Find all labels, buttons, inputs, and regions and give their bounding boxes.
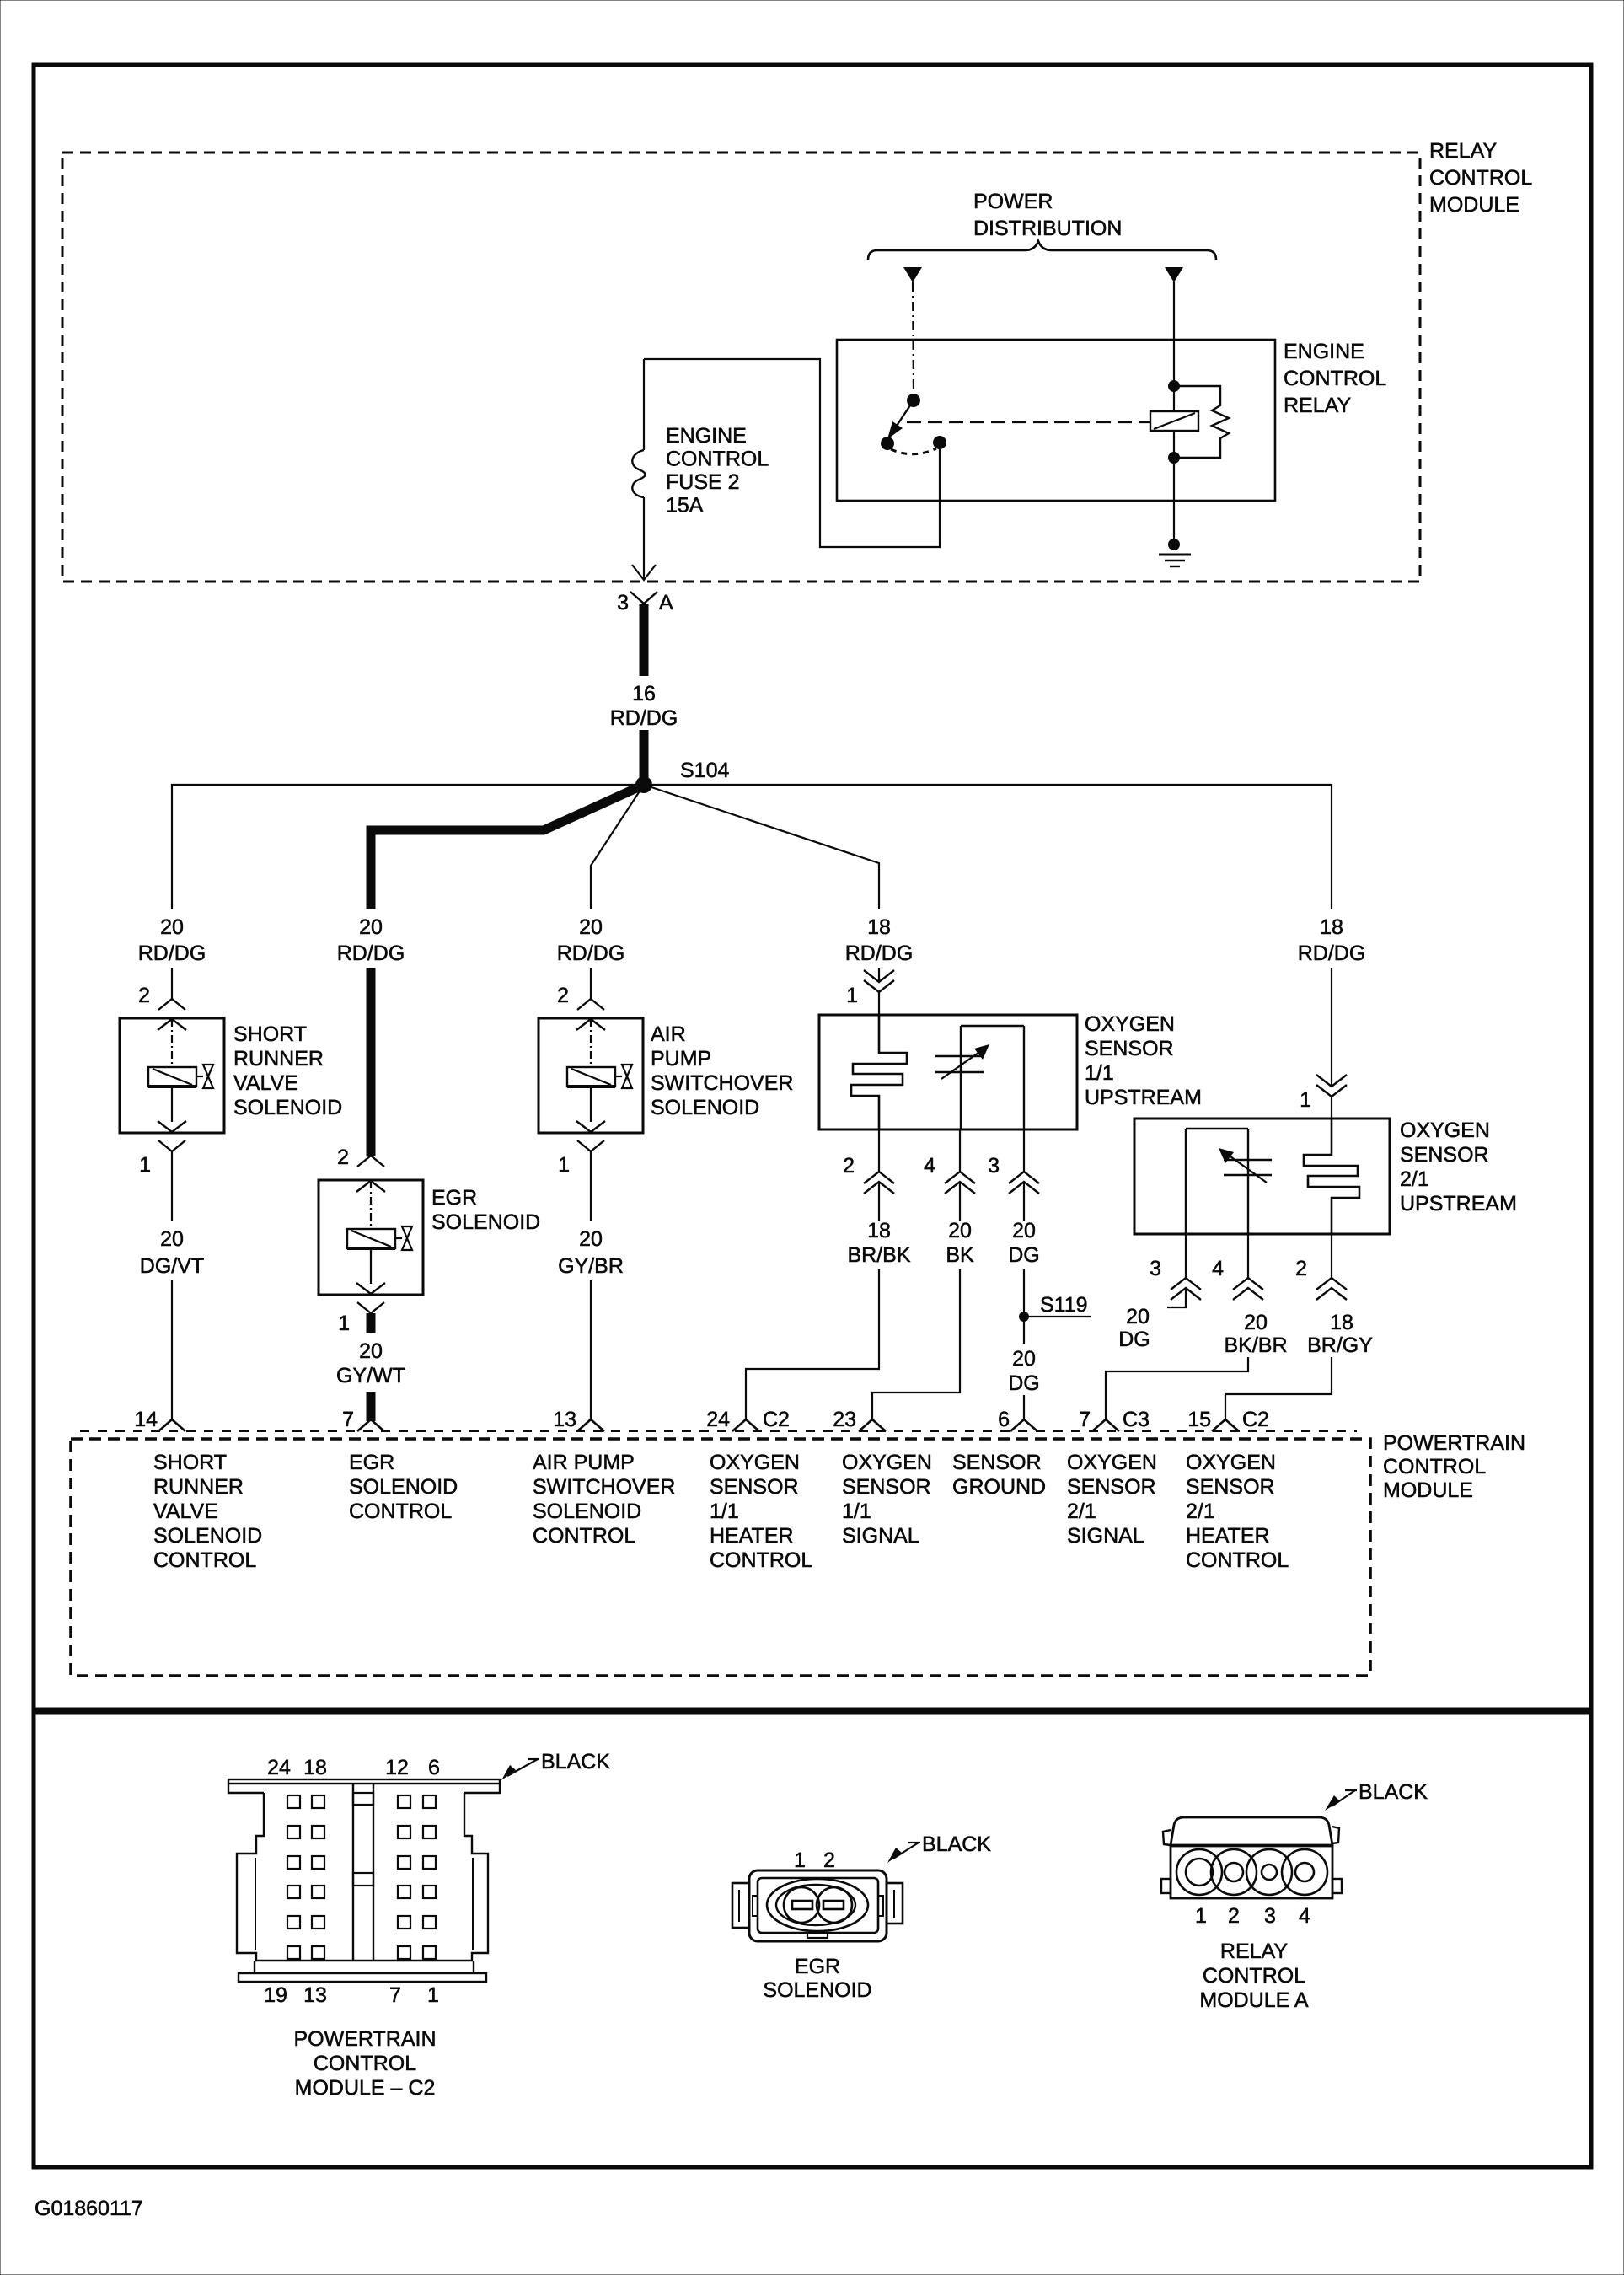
svg-text:SIGNAL: SIGNAL — [842, 1524, 919, 1548]
svg-text:20: 20 — [579, 915, 603, 939]
wire 16 RD/DG (thick) — [640, 604, 649, 785]
relay coil — [1150, 411, 1198, 431]
svg-text:BR/GY: BR/GY — [1307, 1333, 1373, 1357]
svg-text:4: 4 — [924, 1154, 935, 1178]
svg-text:RELAY: RELAY — [1429, 139, 1497, 163]
svg-text:RD/DG: RD/DG — [337, 942, 405, 965]
svg-text:3: 3 — [1150, 1257, 1161, 1280]
thick wire 20 RD/DG to EGR — [367, 968, 376, 1156]
label: POWERTRAIN CONTROL MODULE — [1383, 1431, 1525, 1502]
svg-text:POWERTRAIN: POWERTRAIN — [1383, 1431, 1525, 1455]
engine control fuse 2 wire — [643, 359, 645, 560]
svg-text:FUSE 2: FUSE 2 — [666, 470, 740, 494]
svg-text:18: 18 — [867, 1219, 891, 1242]
oxygen sensor 1/1 upstream box — [819, 1015, 1077, 1129]
svg-text:3: 3 — [1264, 1904, 1276, 1928]
short runner valve solenoid SOL1 — [120, 1018, 224, 1133]
EGR solenoid connector face — [732, 1870, 903, 1941]
label: POWER DISTRIBUTION — [973, 190, 1122, 240]
label: 18 RD/DG at x=1043 — [845, 915, 914, 965]
svg-text:BLACK: BLACK — [1359, 1780, 1428, 1804]
svg-text:24: 24 — [706, 1408, 730, 1431]
svg-text:1: 1 — [139, 1153, 151, 1177]
svg-text:CONTROL: CONTROL — [1186, 1548, 1289, 1572]
figure number G01860117 — [35, 2197, 143, 2220]
oxygen sensor 2/1 upstream box — [1134, 1119, 1390, 1234]
label: BLACK (PCM C2) with leader — [501, 1750, 610, 1780]
wire to short runner valve solenoid pin 2 — [171, 968, 173, 999]
svg-text:13: 13 — [553, 1408, 576, 1431]
RCM A cavity numbers — [1195, 1904, 1310, 1928]
relay switch common contact — [881, 437, 894, 450]
label: BLACK (EGR connector) with leader — [887, 1832, 991, 1863]
label: OXYGEN SENSOR 1/1 UPSTREAM — [1085, 1012, 1202, 1109]
O2S1/1 pin 4 wire + inline connector — [924, 1129, 975, 1221]
svg-text:SOLENOID: SOLENOID — [233, 1096, 342, 1119]
PCM terminal 13 — [553, 1408, 604, 1431]
inline connector pin 1 (O2S 1/1) — [846, 970, 894, 1007]
thick wire 20 GY/WT — [367, 1313, 376, 1421]
svg-text:20: 20 — [1244, 1311, 1268, 1334]
svg-text:RD/DG: RD/DG — [557, 942, 625, 965]
wire 20 DG/VT — [171, 1151, 173, 1419]
svg-text:GY/BR: GY/BR — [558, 1254, 624, 1278]
svg-text:MODULE: MODULE — [1429, 193, 1519, 217]
svg-text:CONTROL: CONTROL — [314, 2052, 416, 2075]
powertrain control module boundary (dashed) — [71, 1439, 1370, 1676]
PCM terminal 14 — [134, 1408, 185, 1431]
air pump switchover solenoid SOL3 — [539, 1018, 643, 1133]
relay control module boundary (dashed) — [62, 153, 1420, 582]
PCM terminal 6 — [998, 1408, 1037, 1431]
svg-text:18: 18 — [1330, 1311, 1353, 1334]
PCM function label at x=842 — [710, 1451, 812, 1572]
svg-text:S119: S119 — [1040, 1293, 1088, 1317]
svg-text:MODULE A: MODULE A — [1199, 1988, 1309, 2012]
svg-text:A: A — [659, 591, 673, 614]
svg-text:SOLENOID: SOLENOID — [431, 1210, 540, 1234]
power feed triangle B+ left — [903, 267, 922, 282]
svg-text:POWERTRAIN: POWERTRAIN — [294, 2027, 437, 2051]
connector pin 2 (air pump) — [557, 984, 604, 1010]
svg-text:HEATER: HEATER — [1186, 1524, 1270, 1548]
wire from NO contact to fuse feed — [644, 359, 940, 547]
PCM terminal 24 C2 — [706, 1408, 790, 1431]
svg-text:20: 20 — [1012, 1219, 1036, 1242]
svg-text:1: 1 — [1195, 1904, 1207, 1928]
svg-text:19: 19 — [264, 1983, 287, 2007]
label: 20 BK/BR — [1224, 1311, 1287, 1357]
svg-text:DG/VT: DG/VT — [140, 1254, 204, 1278]
arrowhead at module exit — [632, 560, 656, 580]
O2S1/1 pin 3 wire + inline connector — [988, 1129, 1039, 1221]
PCM function label at x=999 — [842, 1451, 932, 1548]
PCM C2 cavity numbers top — [267, 1756, 440, 1779]
svg-text:CONTROL: CONTROL — [1429, 166, 1532, 190]
svg-text:7: 7 — [342, 1408, 354, 1431]
svg-text:BK/BR: BK/BR — [1224, 1333, 1287, 1357]
svg-text:RELAY: RELAY — [1220, 1940, 1288, 1963]
PCM C2 connector face — [228, 1779, 500, 1982]
splice S119 — [1019, 1293, 1088, 1322]
svg-text:SOLENOID: SOLENOID — [533, 1500, 641, 1523]
svg-text:AIR: AIR — [651, 1022, 686, 1046]
relay control module A connector face — [1161, 1817, 1342, 1898]
svg-text:SWITCHOVER: SWITCHOVER — [533, 1475, 675, 1499]
svg-text:7: 7 — [389, 1983, 401, 2007]
svg-text:OXYGEN: OXYGEN — [842, 1451, 932, 1474]
svg-text:ENGINE: ENGINE — [666, 424, 747, 448]
svg-text:1: 1 — [338, 1312, 350, 1335]
PCM C2 cavity numbers bottom — [264, 1983, 439, 2007]
svg-text:PUMP: PUMP — [651, 1047, 711, 1070]
label: EGR SOLENOID — [431, 1186, 540, 1234]
dotted travel arc between contacts — [891, 448, 936, 454]
svg-text:4: 4 — [1299, 1904, 1310, 1928]
wire from left triangle to switch (dash-dot) — [913, 282, 914, 393]
engine control relay box — [837, 340, 1275, 501]
svg-text:SENSOR: SENSOR — [952, 1451, 1042, 1474]
svg-text:SENSOR: SENSOR — [1067, 1475, 1156, 1499]
label: EGR SOLENOID (connector) — [763, 1955, 871, 2002]
PCM function label at x=182 — [153, 1451, 262, 1572]
svg-text:2: 2 — [823, 1848, 835, 1872]
svg-text:15A: 15A — [666, 494, 704, 518]
svg-text:OXYGEN: OXYGEN — [1186, 1451, 1276, 1474]
label: 20 DG/VT — [140, 1227, 204, 1278]
svg-text:SENSOR: SENSOR — [1400, 1143, 1489, 1167]
svg-text:13: 13 — [303, 1983, 327, 2007]
svg-text:20: 20 — [359, 915, 383, 939]
svg-text:24: 24 — [267, 1756, 291, 1779]
svg-text:6: 6 — [428, 1756, 440, 1779]
relay control dashed line from switch to coil — [907, 421, 1150, 423]
svg-text:20: 20 — [948, 1219, 972, 1242]
svg-text:BR/BK: BR/BK — [847, 1243, 910, 1267]
svg-text:DISTRIBUTION: DISTRIBUTION — [973, 217, 1122, 240]
svg-text:SENSOR: SENSOR — [710, 1475, 799, 1499]
label: 20 RD/DG at x=204 — [138, 915, 206, 965]
S119 branch to O2S 2/1 pin 3 — [1024, 1316, 1091, 1317]
svg-text:SHORT: SHORT — [153, 1451, 227, 1474]
label: RELAY CONTROL MODULE A — [1199, 1940, 1309, 2012]
label: 20 DG (sensor return) — [1008, 1219, 1040, 1267]
svg-text:CONTROL: CONTROL — [153, 1548, 256, 1572]
power feed triangle B+ right — [1165, 267, 1183, 282]
svg-text:2: 2 — [843, 1154, 855, 1178]
svg-text:2: 2 — [1228, 1904, 1240, 1928]
label: 18 RD/DG at x=1580 — [1298, 915, 1366, 965]
PCM function label at x=414 — [349, 1451, 458, 1523]
svg-text:OXYGEN: OXYGEN — [1400, 1119, 1490, 1142]
svg-text:DG: DG — [1008, 1371, 1040, 1395]
svg-text:2: 2 — [1295, 1257, 1307, 1280]
label: 20 BK — [946, 1219, 974, 1267]
svg-text:20: 20 — [1126, 1305, 1150, 1328]
svg-text:2: 2 — [138, 984, 150, 1007]
svg-text:RUNNER: RUNNER — [233, 1047, 324, 1070]
label: 20 DG — [1008, 1347, 1040, 1395]
label: POWERTRAIN CONTROL MODULE - C2 — [294, 2027, 437, 2100]
label: RELAY CONTROL MODULE — [1429, 139, 1532, 217]
svg-text:C2: C2 — [763, 1408, 790, 1431]
svg-text:SIGNAL: SIGNAL — [1067, 1524, 1144, 1548]
svg-text:20: 20 — [579, 1227, 603, 1251]
label: SHORT RUNNER VALVE SOLENOID — [233, 1022, 342, 1119]
svg-text:3: 3 — [617, 591, 629, 614]
relay switch arm with arrowhead — [887, 400, 914, 439]
svg-text:EGR: EGR — [795, 1955, 840, 1978]
brace under POWER DISTRIBUTION — [868, 241, 1216, 260]
bus wire from S104 left to short runner column — [172, 785, 644, 909]
connector pin 1 (short runner) — [139, 1140, 185, 1177]
svg-text:SENSOR: SENSOR — [1186, 1475, 1275, 1499]
wire from right triangle to relay coil — [1173, 282, 1175, 384]
svg-text:MODULE: MODULE — [1383, 1478, 1473, 1502]
svg-text:1/1: 1/1 — [842, 1500, 871, 1523]
svg-text:1/1: 1/1 — [710, 1500, 739, 1523]
svg-text:2: 2 — [337, 1146, 349, 1169]
svg-text:OXYGEN: OXYGEN — [710, 1451, 800, 1474]
svg-text:20: 20 — [160, 1227, 184, 1251]
svg-text:GROUND: GROUND — [952, 1475, 1046, 1499]
svg-text:CONTROL: CONTROL — [666, 448, 769, 471]
svg-text:RD/DG: RD/DG — [1298, 942, 1366, 965]
O2S 2/1 sensing cell (variable) — [1186, 1129, 1272, 1234]
svg-text:SOLENOID: SOLENOID — [153, 1524, 262, 1548]
svg-text:DG: DG — [1008, 1243, 1040, 1267]
svg-text:7: 7 — [1079, 1408, 1091, 1431]
fuse element squiggle — [632, 450, 645, 497]
label: 18 BR/GY — [1307, 1311, 1373, 1357]
svg-text:18: 18 — [303, 1756, 327, 1779]
EGR connector cavity numbers — [794, 1848, 835, 1872]
svg-text:SENSOR: SENSOR — [842, 1475, 931, 1499]
svg-text:DG: DG — [1118, 1328, 1150, 1351]
O2S 1/1 sensing cell (variable) — [935, 1026, 1024, 1129]
svg-text:G01860117: G01860117 — [35, 2197, 143, 2220]
svg-text:CONTROL: CONTROL — [1284, 367, 1386, 390]
svg-text:SHORT: SHORT — [233, 1022, 307, 1046]
svg-text:1: 1 — [1300, 1088, 1311, 1112]
svg-text:SOLENOID: SOLENOID — [349, 1475, 458, 1499]
connector pin 2 (short runner) — [138, 984, 185, 1010]
svg-text:RD/DG: RD/DG — [610, 706, 678, 730]
PCM terminal 7 (EGR, thick) — [342, 1408, 384, 1431]
PCM terminal 7 C3 — [1079, 1408, 1150, 1431]
connector pin 1 (air pump) — [558, 1140, 604, 1177]
O2S1/1 pin 2 wire + inline connector — [843, 1129, 894, 1221]
svg-text:CONTROL: CONTROL — [1383, 1455, 1486, 1478]
label: 20 RD/DG at x=440 — [337, 915, 405, 965]
svg-text:CONTROL: CONTROL — [710, 1548, 812, 1572]
svg-text:SOLENOID: SOLENOID — [651, 1096, 759, 1119]
PCM function label at x=1407 — [1186, 1451, 1289, 1572]
ground symbol — [1159, 555, 1191, 566]
svg-text:C2: C2 — [1242, 1408, 1269, 1431]
label: 16 RD/DG — [610, 682, 678, 730]
svg-text:20: 20 — [1012, 1347, 1036, 1371]
PCM terminal 15 C2 — [1187, 1408, 1269, 1431]
wire BR/GY to terminal 15 C2 — [1225, 1357, 1332, 1419]
svg-text:20: 20 — [359, 1339, 383, 1363]
svg-text:AIR PUMP: AIR PUMP — [533, 1451, 635, 1474]
wire BK to terminal 23 — [872, 1269, 960, 1419]
wire 20 DG to terminal 6 — [1023, 1317, 1025, 1419]
label: 20 GY/WT — [336, 1339, 405, 1387]
wire BR/BK to terminal 24 — [746, 1269, 879, 1419]
wire to air pump solenoid pin 2 — [590, 968, 592, 999]
svg-text:RUNNER: RUNNER — [153, 1475, 244, 1499]
svg-text:4: 4 — [1212, 1257, 1224, 1280]
O2S2/1 pin 4 wire + inline connector — [1212, 1234, 1263, 1300]
connector terminal 3 / A — [617, 591, 673, 614]
PCM function label at x=632 — [533, 1451, 675, 1548]
svg-text:18: 18 — [867, 915, 891, 939]
svg-text:CONTROL: CONTROL — [1203, 1964, 1305, 1988]
label: BLACK (RCM A) with leader — [1325, 1780, 1428, 1811]
splice S104 — [635, 759, 729, 793]
svg-text:12: 12 — [385, 1756, 409, 1779]
svg-text:RD/DG: RD/DG — [138, 942, 206, 965]
label: ENGINE CONTROL RELAY — [1284, 340, 1386, 417]
svg-text:UPSTREAM: UPSTREAM — [1400, 1192, 1517, 1215]
wire through coil — [1173, 384, 1175, 548]
svg-text:UPSTREAM: UPSTREAM — [1085, 1086, 1202, 1109]
svg-text:EGR: EGR — [431, 1186, 477, 1210]
svg-text:S104: S104 — [680, 759, 729, 782]
label: OXYGEN SENSOR 2/1 UPSTREAM — [1400, 1119, 1517, 1215]
bus wire from S104 right to O2S 2/1 column — [644, 785, 1332, 909]
wire 18 RD/DG to O2S 1/1 — [878, 968, 880, 981]
svg-text:HEATER: HEATER — [710, 1524, 794, 1548]
wire 20 GY/BR — [590, 1151, 592, 1419]
svg-text:16: 16 — [632, 682, 656, 706]
wire 18 RD/DG down to O2S 2/1 — [1331, 968, 1332, 1086]
svg-text:VALVE: VALVE — [153, 1500, 218, 1523]
connector pin 1 (EGR) — [338, 1302, 384, 1335]
PCM connector face row (thin dashed) — [80, 1430, 1357, 1432]
svg-text:SWITCHOVER: SWITCHOVER — [651, 1071, 793, 1095]
suppression resistor across coil — [1174, 386, 1229, 458]
svg-text:2/1: 2/1 — [1186, 1500, 1215, 1523]
ground junction dot — [1168, 539, 1180, 550]
svg-text:1: 1 — [558, 1153, 570, 1177]
svg-text:C3: C3 — [1123, 1408, 1150, 1431]
svg-text:OXYGEN: OXYGEN — [1085, 1012, 1175, 1036]
O2S 1/1 heater element — [851, 1015, 907, 1129]
svg-text:RELAY: RELAY — [1284, 394, 1351, 417]
label: AIR PUMP SWITCHOVER SOLENOID — [651, 1022, 793, 1119]
svg-text:6: 6 — [998, 1408, 1010, 1431]
svg-text:20: 20 — [160, 915, 184, 939]
svg-text:SOLENOID: SOLENOID — [763, 1978, 871, 2002]
svg-text:14: 14 — [134, 1408, 158, 1431]
svg-text:2/1: 2/1 — [1067, 1500, 1096, 1523]
svg-text:1: 1 — [427, 1983, 439, 2007]
coil bottom junction — [1168, 452, 1180, 464]
svg-text:15: 15 — [1187, 1408, 1211, 1431]
svg-text:CONTROL: CONTROL — [533, 1524, 635, 1548]
svg-text:GY/WT: GY/WT — [336, 1364, 405, 1387]
svg-text:18: 18 — [1320, 915, 1343, 939]
svg-text:CONTROL: CONTROL — [349, 1500, 452, 1523]
label: 20 DG (O2S2/1 signal) — [1118, 1305, 1150, 1351]
svg-text:23: 23 — [833, 1408, 856, 1431]
relay switch contact upper — [907, 394, 920, 407]
svg-text:2/1: 2/1 — [1400, 1167, 1429, 1191]
EGR solenoid SOL2 — [319, 1180, 423, 1295]
O2S 2/1 heater element — [1304, 1119, 1359, 1234]
svg-text:SENSOR: SENSOR — [1085, 1037, 1174, 1060]
label: 20 GY/BR — [558, 1227, 624, 1278]
branch S104 to air pump column — [591, 785, 644, 909]
PCM function label at x=1130 — [952, 1451, 1046, 1499]
svg-text:1/1: 1/1 — [1085, 1061, 1114, 1085]
label: ENGINE CONTROL FUSE 2 15A — [666, 424, 769, 518]
relay switch NO contact — [933, 436, 946, 449]
svg-text:MODULE – C2: MODULE – C2 — [295, 2076, 436, 2100]
svg-text:1: 1 — [794, 1848, 806, 1872]
svg-text:3: 3 — [988, 1154, 1000, 1178]
svg-text:VALVE: VALVE — [233, 1071, 298, 1095]
svg-text:EGR: EGR — [349, 1451, 394, 1474]
svg-text:2: 2 — [557, 984, 569, 1007]
label: 20 RD/DG at x=701 — [557, 915, 625, 965]
branch S104 to O2S 1/1 column — [644, 785, 879, 909]
svg-text:POWER: POWER — [973, 190, 1053, 213]
svg-text:BLACK: BLACK — [541, 1750, 610, 1773]
label: 18 BR/BK — [847, 1219, 910, 1267]
wire BK/BR to terminal 7 C3 — [1106, 1357, 1248, 1419]
svg-text:BK: BK — [946, 1243, 974, 1267]
coil top junction — [1168, 380, 1180, 392]
svg-text:ENGINE: ENGINE — [1284, 340, 1364, 363]
svg-text:1: 1 — [846, 984, 858, 1007]
connector pin 2 (EGR) — [337, 1146, 384, 1169]
PCM terminal 23 — [833, 1408, 886, 1431]
svg-text:OXYGEN: OXYGEN — [1067, 1451, 1157, 1474]
O2S2/1 pin 3 wire + inline connector — [1150, 1234, 1201, 1307]
svg-text:RD/DG: RD/DG — [845, 942, 914, 965]
PCM function label at x=1266 — [1067, 1451, 1157, 1548]
thick branch S104 to EGR column — [371, 785, 644, 909]
O2S2/1 pin 2 wire + inline connector — [1295, 1234, 1347, 1300]
inline connector pin 1 (O2S 2/1) — [1300, 1075, 1347, 1112]
svg-text:BLACK: BLACK — [922, 1832, 991, 1856]
